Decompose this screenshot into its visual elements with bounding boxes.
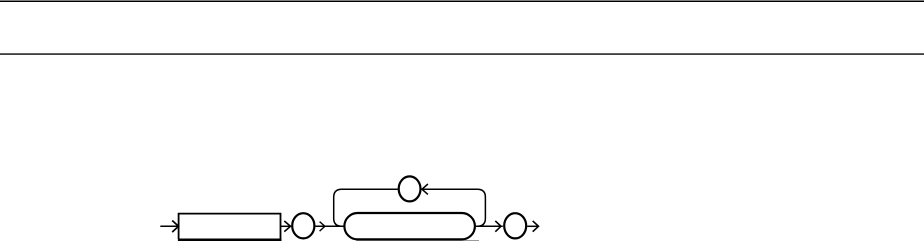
terminal circle C1	[292, 213, 314, 238]
wire box to circle C1	[281, 225, 291, 227]
exit wire	[527, 225, 538, 227]
loop circle (top)	[399, 176, 421, 201]
arrowhead into C1	[284, 221, 290, 232]
terminal circle C2	[504, 213, 526, 238]
arrowhead into C2	[495, 221, 501, 232]
non-terminal box shadow	[178, 239, 282, 241]
top rule 2	[0, 53, 924, 55]
loop-back path	[334, 189, 486, 226]
exit arrowhead	[533, 221, 539, 232]
top rule 1	[0, 0, 924, 2]
entry arrowhead	[172, 221, 178, 233]
non-terminal box	[179, 214, 281, 239]
wire C1 to pill	[316, 225, 344, 227]
wire pill to circle C2	[476, 225, 503, 227]
entry wire	[160, 225, 178, 227]
mid arrowhead before loop junction	[320, 222, 325, 232]
terminal pill	[344, 213, 475, 239]
loop arrowhead (points left into top circle)	[422, 184, 428, 194]
terminal pill shadow	[356, 240, 479, 241]
